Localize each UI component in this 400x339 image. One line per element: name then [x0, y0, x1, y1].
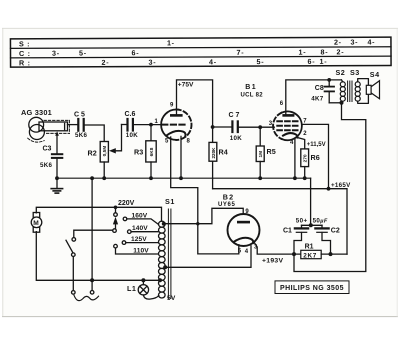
motor M — [31, 213, 42, 233]
triode cathode — [167, 131, 186, 136]
B2 cathode — [234, 238, 254, 243]
table row line S/C — [10, 47, 390, 49]
transformer S1 winding — [159, 221, 166, 298]
triode anode — [170, 114, 183, 117]
svg-text:S4: S4 — [370, 70, 380, 79]
svg-text:3-: 3- — [350, 38, 358, 47]
svg-text:2-: 2- — [334, 38, 342, 47]
svg-text:4-: 4- — [209, 57, 217, 66]
pentode B1b envelope — [273, 111, 302, 140]
svg-text:140V: 140V — [132, 225, 148, 232]
svg-text:+75V: +75V — [178, 82, 194, 89]
resistor R6 — [301, 149, 309, 167]
svg-text:C.6: C.6 — [125, 111, 136, 118]
wiper arrow R2 — [113, 125, 122, 151]
svg-text:125V: 125V — [131, 236, 147, 243]
speaker S4 — [366, 81, 379, 99]
triode B1a envelope — [161, 110, 191, 140]
node grid R3 — [149, 123, 153, 127]
svg-text:R4: R4 — [219, 148, 228, 157]
cord terminal right — [90, 291, 94, 295]
pentode anode wire to transformer — [286, 80, 342, 114]
wire primary return loop — [294, 103, 366, 272]
svg-text:50+: 50+ — [296, 218, 308, 225]
svg-text:10K: 10K — [230, 135, 242, 142]
wire C3 to ground rail — [56, 159, 58, 188]
heater wire triode to B2 filament — [171, 137, 239, 254]
svg-text:C1: C1 — [283, 227, 292, 234]
svg-text:6K8: 6K8 — [149, 147, 155, 156]
svg-text:S2: S2 — [336, 68, 346, 77]
chassis drop wire — [91, 178, 93, 290]
wire R6 to rail — [304, 167, 306, 179]
node R3 ground — [149, 176, 153, 180]
node S2 bottom — [340, 101, 344, 105]
svg-text:B2: B2 — [223, 192, 235, 201]
potentiometer R2 — [100, 142, 108, 163]
svg-text:B1: B1 — [245, 84, 257, 91]
wire motor bottom — [36, 232, 161, 281]
svg-text:2-: 2- — [336, 47, 344, 56]
wire C1 C2 tops — [302, 224, 323, 226]
svg-text:10K: 10K — [126, 132, 138, 139]
svg-text:2-: 2- — [102, 58, 110, 67]
svg-text:1-: 1- — [167, 38, 175, 47]
svg-text:220K: 220K — [211, 147, 216, 159]
wires S3 to speaker — [358, 79, 369, 86]
svg-text:4-: 4- — [367, 37, 375, 46]
wire to C7 — [213, 126, 232, 128]
triode grid — [162, 124, 186, 126]
svg-text:S1: S1 — [165, 197, 175, 206]
table row line C/R — [11, 56, 391, 58]
svg-text:5V: 5V — [167, 295, 176, 302]
node chassis rail — [90, 176, 94, 180]
tap 160V — [123, 217, 127, 221]
nameplate box — [275, 281, 349, 294]
output transformer S3 — [355, 82, 360, 101]
svg-text:UY65: UY65 — [218, 202, 235, 208]
node chassis bottom line — [90, 278, 94, 282]
S1 core — [168, 209, 171, 299]
node caps top — [309, 223, 313, 227]
node pin4 ground — [293, 176, 297, 180]
svg-text:5-: 5- — [257, 57, 265, 66]
wire wiper to C6 — [122, 124, 127, 126]
svg-text:4K7: 4K7 — [311, 95, 324, 102]
voltage selector plug — [113, 207, 158, 254]
pentode anode — [282, 114, 294, 117]
wire R3 to rail — [150, 162, 152, 178]
wire R4 to +165 line — [212, 161, 214, 189]
table frame — [10, 37, 391, 67]
node HT tap coil — [162, 222, 166, 226]
wire R1 right — [321, 253, 347, 255]
svg-text:R :: R : — [19, 58, 31, 67]
mains switch — [66, 230, 113, 294]
svg-text:5K6: 5K6 — [75, 132, 88, 139]
svg-text:3-: 3- — [52, 49, 60, 58]
wire HT from transformer top to B2 anode — [164, 208, 244, 223]
svg-text:160V: 160V — [132, 213, 148, 220]
node R2 ground — [102, 176, 106, 180]
wire C6 to grid junction — [134, 124, 161, 126]
transformer core — [348, 81, 352, 102]
resistor R5 — [259, 127, 261, 146]
wire pickup to C3 — [56, 135, 58, 154]
node C2 junction — [329, 252, 333, 256]
node heater tap coil — [163, 265, 167, 269]
tap 125V — [122, 241, 126, 245]
svg-text:M: M — [33, 220, 39, 227]
svg-text:PHILIPS NG 3505: PHILIPS NG 3505 — [280, 285, 344, 292]
svg-text:0,5M: 0,5M — [102, 146, 108, 157]
pentode cathode — [283, 133, 297, 137]
+75V supply wire — [177, 80, 213, 142]
ground — [51, 189, 62, 194]
pickup cartridge AG3301 — [28, 117, 70, 142]
svg-text:1M: 1M — [258, 151, 264, 158]
capacitor C7 — [232, 121, 237, 132]
svg-text:8-: 8- — [320, 47, 328, 56]
svg-text:C 5: C 5 — [74, 112, 85, 119]
wire C7 to pentode grid — [239, 126, 274, 128]
node C3 ground — [55, 176, 59, 180]
svg-text:220V: 220V — [118, 200, 135, 207]
svg-text:R3: R3 — [134, 147, 143, 156]
capacitor C1 — [294, 225, 308, 254]
node selector feed — [114, 206, 118, 210]
output transformer S2 — [340, 80, 345, 101]
resistor R1 — [301, 250, 321, 258]
ground rail — [57, 177, 311, 179]
svg-text:C :: C : — [19, 49, 31, 58]
pilot lamp L1 — [138, 280, 159, 299]
node pin8 ground — [179, 176, 183, 180]
wire pin4 to heater winding — [166, 246, 252, 267]
wire pin4 g3 to rail — [294, 139, 296, 179]
svg-text:+11,5V: +11,5V — [307, 142, 326, 148]
capacitor C6 — [128, 119, 133, 131]
capacitor C3 — [52, 154, 62, 158]
svg-text:R5: R5 — [267, 147, 276, 156]
rectifier B2 envelope — [228, 214, 260, 246]
wire ground rail to C1 C2 — [310, 178, 312, 225]
svg-text:R1: R1 — [305, 243, 314, 250]
svg-text:AG 3301: AG 3301 — [21, 108, 52, 117]
svg-text:S3: S3 — [350, 68, 360, 77]
node C7 tap — [211, 125, 215, 129]
wire cathode pin8 to rail — [180, 136, 182, 178]
svg-text:6-: 6- — [131, 48, 139, 57]
svg-text:2K7: 2K7 — [303, 252, 317, 259]
svg-text:C3: C3 — [43, 145, 52, 152]
service code table — [10, 37, 391, 67]
svg-text:R2: R2 — [88, 149, 97, 158]
node L1 tap — [141, 278, 145, 282]
svg-text:1-: 1- — [320, 57, 328, 66]
svg-text:UCL 82: UCL 82 — [241, 92, 264, 98]
wire R5 to rail — [259, 162, 261, 179]
svg-text:R6: R6 — [311, 153, 320, 162]
node R5 top — [258, 125, 262, 129]
wire pin3 cathode +193V — [254, 242, 301, 254]
wire pickup to C5 — [68, 124, 78, 126]
svg-text:110V: 110V — [133, 247, 149, 254]
svg-text:C2: C2 — [331, 227, 340, 234]
svg-text:C 7: C 7 — [229, 112, 240, 119]
wire motor top 220V feed — [36, 207, 161, 221]
node R5 ground — [258, 176, 262, 180]
svg-text:+193V: +193V — [262, 257, 284, 264]
svg-text:5-: 5- — [79, 48, 87, 57]
svg-text:7-: 7- — [236, 48, 244, 57]
capacitor C5 — [78, 119, 83, 131]
wire cathode to R6 — [297, 138, 304, 149]
pentode grids — [277, 121, 299, 130]
svg-text:50µF: 50µF — [313, 218, 328, 225]
svg-text:6-: 6- — [308, 57, 316, 66]
svg-text:S :: S : — [19, 39, 30, 48]
capacitor C2 — [315, 225, 330, 254]
capacitor C8 — [325, 78, 342, 103]
tap 140V — [128, 230, 132, 234]
node pickup bottom arrow — [55, 131, 59, 136]
wire R2 bottom to rail — [103, 162, 105, 178]
node C1 junction — [292, 252, 296, 256]
+165V line B — [213, 189, 347, 254]
svg-text:1-: 1- — [298, 48, 306, 57]
node coil 280 tap — [158, 278, 162, 282]
svg-text:+165V: +165V — [331, 182, 351, 189]
resistor R4 — [209, 142, 217, 161]
svg-text:L1: L1 — [127, 284, 136, 293]
svg-text:C8: C8 — [315, 85, 324, 92]
svg-text:5K6: 5K6 — [40, 162, 53, 169]
mains cord — [74, 295, 99, 300]
wire pin7 screen to +165 — [303, 124, 329, 188]
svg-text:270: 270 — [303, 154, 309, 162]
svg-text:3-: 3- — [149, 58, 157, 67]
node pin7 line B — [327, 187, 331, 191]
resistor R3 — [150, 125, 152, 141]
node R6 ground — [303, 176, 307, 180]
wire C5 to R2 top — [85, 125, 104, 142]
node heater drop — [196, 222, 199, 225]
B2 anode — [237, 221, 250, 224]
